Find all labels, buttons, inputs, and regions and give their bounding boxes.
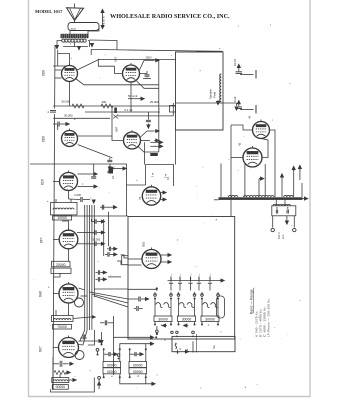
V1 top cap wire — [58, 54, 70, 66]
V5 arrows right — [93, 173, 98, 176]
in-box left arrows — [163, 324, 168, 327]
cap in box lower — [137, 306, 138, 311]
x175.5 vertical below box — [175, 130, 177, 165]
svg-text:6D6: 6D6 — [42, 136, 46, 142]
voltage divider winding b — [244, 195, 274, 197]
wire y207 arrow — [100, 206, 112, 208]
svg-text:Band — Range: Band — Range — [250, 289, 254, 314]
page right border — [309, 0, 311, 397]
band switch enclosure — [128, 217, 235, 340]
svg-text:d: d — [178, 348, 182, 350]
tube V3 6D6 — [62, 129, 78, 147]
x158.8 vertical right column — [158, 60, 160, 152]
dark resistor blob — [150, 153, 158, 156]
tube V9 42 — [253, 120, 270, 139]
bus riser arrow up c — [299, 169, 301, 180]
svg-text:10 mf.: 10 mf. — [233, 58, 237, 66]
cap in box — [139, 297, 140, 302]
long wire y103 — [176, 102, 237, 104]
tube V11 subcircle — [75, 298, 84, 307]
voltage divider winding c — [284, 195, 293, 197]
V2 cathode diagonal — [137, 81, 159, 88]
resistor row3 body — [101, 104, 113, 108]
arrow at box — [91, 316, 96, 319]
svg-text:25,000: 25,000 — [150, 100, 159, 104]
svg-text:8 mf.: 8 mf. — [233, 96, 237, 102]
svg-text:30000: 30000 — [158, 318, 168, 322]
svg-text:42: 42 — [248, 115, 252, 119]
dots above box bottom — [156, 333, 158, 335]
svg-text:e: e — [111, 374, 113, 378]
V4 cathode — [138, 147, 159, 153]
fan wires to V12 upper — [79, 330, 85, 341]
svg-text:76: 76 — [138, 196, 142, 200]
svg-text:a: a — [191, 274, 193, 276]
svg-text:2 m: 2 m — [165, 174, 168, 178]
switch divider — [192, 341, 194, 352]
svg-text:250V: 250V — [146, 56, 152, 60]
tube V11 — [59, 282, 78, 303]
bottom coil unit e contacts — [103, 348, 105, 350]
V12 left wire — [53, 347, 59, 349]
left vertical bus — [53, 45, 55, 390]
bottom coil unit d box1 — [129, 362, 147, 368]
series capacitor in left bus — [50, 111, 56, 112]
unit a stubs — [154, 292, 156, 295]
V1 drop to row — [69, 82, 71, 107]
wires bottom left — [59, 375, 61, 378]
plug lead left — [272, 216, 274, 228]
tube V7 — [59, 228, 78, 249]
V4 left wire — [112, 136, 124, 141]
svg-text:6A8: 6A8 — [39, 291, 43, 297]
voltage divider winding a — [229, 195, 238, 197]
svg-text:0.1: 0.1 — [111, 175, 115, 179]
IF transformer box — [51, 203, 78, 215]
resistor squiggle bottom — [54, 371, 66, 375]
V2 grid wire — [115, 66, 123, 73]
cap below V12 — [60, 361, 62, 367]
V1 plate wire — [77, 59, 176, 70]
tube V6 76 — [142, 185, 160, 205]
band coil unit b resistor box — [178, 316, 196, 322]
row y118 wire — [53, 117, 110, 119]
line y289 inside — [94, 288, 128, 290]
row y112 wire — [85, 111, 160, 113]
V8 left wire — [128, 258, 142, 260]
grid row4 cap arrow — [109, 247, 110, 252]
svg-text:A.C.: A.C. — [281, 234, 285, 239]
dots above rect — [171, 331, 173, 333]
svg-text:6E5: 6E5 — [142, 241, 146, 247]
band coil unit c contacts — [201, 298, 203, 300]
svg-text:c: c — [208, 323, 210, 327]
IF transformer coil — [53, 208, 74, 210]
bus right arrow — [303, 197, 308, 200]
bottom units bottom wire — [120, 377, 152, 384]
tube V2 6A7 — [123, 63, 140, 82]
electrolytic C2 — [238, 101, 240, 107]
trimmer mark — [114, 108, 117, 114]
bottom coil unit d lower contacts — [129, 376, 131, 378]
bus riser arrow up b — [293, 170, 295, 197]
antenna loop 110 — [68, 23, 99, 31]
unit b stubs — [178, 292, 180, 295]
band coil unit c lower contacts — [201, 324, 203, 326]
arrows right of cap — [122, 167, 127, 170]
tap ticks — [170, 277, 172, 281]
V1 left wire b — [55, 77, 62, 79]
electrolytic C1 plate — [240, 74, 254, 76]
svg-text:42: 42 — [238, 142, 242, 146]
plug terminal left — [271, 228, 274, 231]
V8 second left wire — [128, 264, 142, 266]
vertical feed to V6 frame — [143, 142, 145, 164]
band coil unit b leads — [178, 299, 180, 317]
row y116 — [118, 115, 174, 117]
V5 resistor boxes — [53, 215, 72, 220]
V1 cathode wire — [76, 79, 159, 85]
bottom coil unit d contacts — [129, 348, 131, 350]
svg-text:50 mmf.: 50 mmf. — [128, 94, 138, 98]
padder trimmer tall box — [217, 296, 225, 318]
coil box leads — [55, 310, 57, 316]
svg-text:0.005: 0.005 — [75, 193, 82, 197]
output box riser right — [284, 200, 286, 206]
tap trimmer plates — [170, 281, 172, 283]
h line y277 — [108, 276, 121, 278]
svg-text:70000: 70000 — [57, 325, 67, 329]
dark cap 108 — [109, 167, 114, 174]
bus y216 — [53, 215, 128, 217]
chassis bus bar — [219, 197, 303, 200]
svg-text:110 V.: 110 V. — [277, 232, 281, 239]
V12 top arrows — [98, 340, 103, 343]
V10 wires — [231, 157, 243, 159]
svg-text:50,000: 50,000 — [93, 239, 101, 242]
V2 screen cap — [140, 71, 148, 74]
svg-text:00000: 00000 — [133, 364, 143, 368]
wire bundle vertical — [84, 211, 86, 297]
svg-text:WHOLESALE RADIO SERVICE CO., I: WHOLESALE RADIO SERVICE CO., INC. — [110, 13, 230, 20]
vertical x231 — [230, 125, 232, 216]
V10 drop right — [264, 164, 266, 197]
tube V4 6B7 — [124, 130, 141, 149]
coil box pair A top — [52, 316, 74, 322]
svg-text:00000: 00000 — [56, 385, 66, 389]
svg-text:L: L — [97, 260, 100, 262]
svg-text:LF-Phono — 150-350 Kc.: LF-Phono — 150-350 Kc. — [267, 298, 271, 337]
output box riser left — [275, 200, 277, 206]
V6 arrows — [162, 191, 167, 194]
top wire y51 — [196, 50, 223, 52]
trimmer cross — [113, 115, 118, 119]
grid row5 cap arrow — [108, 252, 109, 257]
svg-text:30000: 30000 — [205, 318, 215, 322]
page bottom border — [29, 396, 311, 398]
V5 bottom wire — [68, 191, 70, 200]
bus riser arrow right — [258, 179, 260, 197]
drop from box to bus — [220, 164, 222, 198]
bottom coil unit e box2 — [103, 368, 121, 374]
cap row y124 — [53, 123, 57, 125]
svg-text:400: 400 — [102, 100, 107, 104]
wire frame V6 — [127, 185, 146, 216]
tube V10 42 — [243, 146, 262, 167]
svg-text:2: 2 — [48, 110, 50, 114]
x112 vertical — [111, 106, 113, 131]
grid row7 cap arrow — [98, 277, 99, 282]
ground riser arrow x99 — [98, 376, 101, 379]
band coil unit a windings — [156, 303, 163, 308]
small circles x118 y355 — [117, 354, 120, 357]
svg-text:a: a — [199, 274, 201, 276]
osc coil vertical — [220, 74, 222, 102]
row y116 riser — [172, 103, 174, 116]
band coil unit c resistor box — [201, 316, 219, 322]
arrow down x101 — [101, 332, 103, 340]
switch lever marks — [175, 344, 177, 349]
bundle lower — [84, 297, 86, 330]
left terminal of units — [96, 348, 99, 351]
switch arrow — [286, 216, 288, 221]
svg-text:6K7: 6K7 — [39, 346, 43, 352]
electrolytic C1 — [238, 65, 240, 72]
center tap arrow — [78, 47, 81, 50]
page left border — [28, 0, 30, 397]
bus bar left stub — [214, 199, 219, 201]
top bus wire right — [90, 40, 118, 49]
plug terminal right — [293, 228, 296, 231]
svg-text:00000: 00000 — [107, 364, 117, 368]
box 20000 — [52, 261, 71, 267]
h line y255.7 step — [122, 255, 128, 257]
band coil unit a contacts — [154, 298, 156, 300]
row y164 wire — [30, 163, 110, 165]
V3 plate diagonal — [78, 145, 113, 158]
band coil unit c windings — [203, 303, 210, 308]
bottom return loop — [51, 377, 95, 392]
svg-text:110: 110 — [71, 27, 76, 31]
V4 plate arrow — [141, 131, 148, 137]
box lowest — [52, 385, 68, 390]
arrow row b near V4 — [150, 145, 158, 147]
tube V1 6D6 — [62, 64, 78, 82]
V7 left wire — [53, 239, 59, 241]
antenna post wire — [128, 289, 157, 291]
V2 plate arrow — [140, 60, 145, 70]
bundle top ties — [84, 205, 86, 211]
vertical x302 — [301, 183, 303, 197]
grid common vertical b — [108, 212, 110, 246]
grid row6 cap arrow — [98, 270, 99, 275]
svg-text:a: a — [171, 274, 173, 276]
step wires into box — [121, 255, 129, 258]
bottom coil unit d box2 — [129, 368, 147, 374]
svg-text:MODEL 1017: MODEL 1017 — [35, 9, 63, 14]
V5 left wire — [53, 181, 60, 183]
bottom coil unit e lower contacts — [103, 376, 105, 378]
output transformer box — [272, 206, 296, 216]
band range underline — [253, 288, 255, 313]
V10 drop left — [244, 164, 246, 197]
transformer left lead — [57, 41, 62, 44]
svg-text:20000: 20000 — [56, 263, 66, 267]
tube V12 — [59, 336, 79, 358]
coil box bottom — [52, 378, 69, 383]
V3 bottom components — [107, 160, 112, 161]
svg-text:6D6: 6D6 — [42, 70, 46, 76]
bottom coil unit e cap arrow — [109, 352, 110, 356]
antenna transformer primary — [61, 34, 89, 38]
band coil unit c leads — [201, 299, 203, 317]
cap v at 93.7 175 — [91, 177, 96, 178]
box 00000b — [51, 268, 71, 273]
V11 left wire — [53, 293, 59, 295]
cap 103-109 — [105, 320, 106, 325]
ot caps inside — [276, 210, 277, 214]
svg-text:6C6: 6C6 — [41, 179, 45, 185]
wire grid row V1 — [57, 50, 59, 66]
bottom switch rectangle — [172, 336, 235, 351]
tube V12 subcircle — [75, 351, 84, 360]
band coil unit a resistor box — [154, 316, 172, 322]
antenna transformer secondary — [62, 39, 86, 42]
bottom edge arrow — [184, 350, 189, 353]
svg-text:6F7: 6F7 — [40, 237, 44, 243]
bundle fan right — [90, 292, 129, 299]
junction arrow y100 — [217, 100, 219, 105]
cap near 110,172 — [108, 171, 113, 172]
bottom coil unit e box1 — [103, 362, 121, 368]
dimension arrow ant height — [101, 10, 104, 13]
wire loop to transformer — [69, 31, 71, 35]
bus riser arrow up a — [281, 178, 283, 198]
plug lead right — [293, 216, 295, 228]
tap line — [168, 280, 221, 282]
row y103 bus — [53, 105, 176, 107]
output transformer coil — [273, 204, 290, 205]
V9 wires — [231, 125, 253, 130]
IF box top leads — [55, 199, 57, 203]
electrolytic C2 plate — [240, 109, 254, 111]
plus junction — [177, 350, 179, 354]
grid row1 cap arrow — [90, 219, 92, 222]
transformer right lead — [88, 41, 90, 47]
svg-text:e: e — [186, 348, 189, 350]
wire x94 down — [88, 330, 95, 345]
cap at 147,121 — [146, 120, 151, 121]
antenna — [67, 8, 84, 21]
antenna mast lead — [74, 4, 76, 9]
svg-text:6B7: 6B7 — [115, 126, 119, 132]
band coil unit b lower contacts — [178, 324, 180, 326]
small box on left edge — [170, 106, 176, 113]
bottom coil unit d cap arrow — [135, 352, 136, 356]
svg-text:30000: 30000 — [182, 318, 192, 322]
svg-text:10000: 10000 — [57, 216, 67, 220]
vertical x113 — [113, 316, 115, 375]
svg-text:0.1 mf.: 0.1 mf. — [125, 108, 134, 112]
svg-text:Field: Field — [213, 91, 217, 98]
shield box top right — [176, 52, 224, 130]
svg-text:6A7: 6A7 — [114, 56, 118, 62]
svg-text:Ant.50 ft: Ant.50 ft — [102, 16, 106, 27]
V8 arrows — [167, 254, 172, 257]
band coil unit b contacts — [178, 298, 180, 300]
grid row3 cap arrow — [95, 242, 96, 247]
ground arrow right — [91, 44, 94, 47]
band coil unit b windings — [179, 303, 186, 308]
tube V5 — [60, 171, 78, 191]
wire into V2 — [98, 59, 114, 66]
wire V3 top — [57, 124, 59, 130]
coil box pair A bottom — [53, 325, 72, 330]
svg-text:1 m: 1 m — [151, 173, 154, 177]
wire y337 into switch — [114, 336, 150, 338]
cap x84 row — [83, 335, 84, 340]
V2 drop to row — [130, 82, 132, 112]
V7 wires right — [77, 232, 91, 234]
V1 left wire — [55, 69, 62, 71]
fan wires to V11 — [79, 288, 85, 290]
row y164 extension — [110, 164, 127, 185]
arrow row a near V4 — [150, 141, 158, 143]
antenna lead wire — [74, 21, 76, 24]
filament center tap — [74, 42, 76, 46]
band coil unit a leads — [154, 299, 156, 317]
ground arrow left — [56, 44, 59, 49]
grid row2 cap arrow — [95, 230, 96, 235]
unit c stubs — [201, 292, 203, 295]
bottom units top wire — [120, 344, 150, 350]
V7 bottom wire — [68, 249, 70, 261]
V7 top wire — [62, 221, 69, 230]
V4 wires right — [141, 140, 151, 142]
V3 right wire — [78, 131, 113, 136]
svg-text:a: a — [210, 274, 212, 276]
svg-text:Sw.: Sw. — [212, 345, 216, 349]
tall box bottom edge tie — [176, 129, 224, 131]
resistor 50000 body — [72, 104, 84, 108]
tube V8 oscillator — [142, 248, 161, 269]
grid common vertical a — [103, 219, 105, 256]
svg-text:a: a — [180, 274, 182, 276]
wire box chain — [53, 273, 60, 277]
svg-text:30,000: 30,000 — [64, 114, 73, 118]
svg-text:d: d — [137, 374, 139, 378]
band coil unit a lower contacts — [154, 324, 156, 326]
